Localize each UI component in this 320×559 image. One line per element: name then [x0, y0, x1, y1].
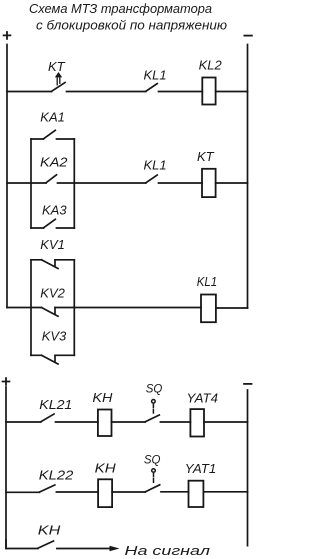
- wire rung6 left: [6, 540, 38, 549]
- arrowhead: [110, 546, 120, 552]
- wire rung2 left: [7, 182, 46, 184]
- svg-text:KL1: KL1: [144, 158, 167, 173]
- wire: [160, 421, 190, 423]
- coil KL1: [201, 295, 216, 323]
- minus terminal ladder2: [244, 383, 251, 385]
- left rail ladder2: [5, 387, 7, 549]
- contact KL1 rung1: [146, 84, 157, 92]
- coil KL2: [202, 78, 215, 105]
- KA3 branch wire: [31, 227, 74, 229]
- KV3 branch wire: [31, 354, 74, 356]
- svg-text:KL22: KL22: [39, 468, 74, 483]
- wire: [204, 421, 248, 423]
- coil YAT4: [190, 409, 204, 436]
- coil YAT1: [189, 481, 204, 507]
- wire: [216, 91, 248, 93]
- minus terminal ladder1: [244, 35, 252, 37]
- contact KH rung6: [38, 541, 54, 548]
- coil KT: [202, 169, 216, 197]
- svg-text:На сигнал: На сигнал: [125, 544, 211, 558]
- contact KV2: [42, 308, 59, 317]
- contact KV1: [42, 260, 59, 269]
- contact SQ rung4: [145, 415, 159, 422]
- wire rung5 left: [6, 491, 39, 493]
- svg-text:с блокировкой по напряжению: с блокировкой по напряжению: [36, 19, 228, 33]
- svg-text:KL1: KL1: [197, 274, 218, 289]
- SQ linkage rung5: [152, 469, 156, 483]
- left rail ladder1: [6, 45, 8, 308]
- wire rung3 left: [7, 307, 42, 309]
- KV1 branch wire: [31, 259, 74, 261]
- wire: [159, 91, 203, 93]
- wire: [161, 491, 189, 493]
- wire rung2 mid: [58, 182, 146, 184]
- svg-text:SQ: SQ: [146, 384, 163, 396]
- svg-text:KH: KH: [95, 461, 117, 476]
- wire: [67, 91, 146, 93]
- KV right bus: [73, 260, 75, 356]
- wire: [216, 307, 248, 309]
- wire: [159, 182, 203, 184]
- KA1 branch wire: [31, 138, 74, 140]
- svg-text:KA3: KA3: [42, 202, 67, 217]
- contact KV3: [42, 355, 59, 364]
- svg-text:KH: KH: [92, 390, 113, 405]
- contact KA2: [46, 175, 57, 183]
- svg-text:KA1: KA1: [40, 109, 65, 124]
- contact KA3: [44, 219, 56, 228]
- SQ linkage rung4: [152, 400, 156, 414]
- wire: [112, 421, 146, 423]
- contact SQ rung5: [145, 485, 160, 492]
- svg-text:KL1: KL1: [144, 68, 167, 83]
- contact KL22: [39, 485, 55, 492]
- KA right bus: [73, 139, 75, 228]
- svg-text:KT: KT: [48, 59, 66, 74]
- contact KL21: [41, 414, 54, 422]
- svg-text:KV1: KV1: [40, 237, 65, 252]
- wire to signal: [57, 548, 110, 550]
- KV left bus: [30, 260, 32, 356]
- svg-text:YAT4: YAT4: [187, 391, 219, 406]
- contact KT: [52, 83, 66, 92]
- contact KL1 rung2: [146, 175, 157, 183]
- right rail ladder2: [247, 390, 249, 546]
- plus terminal ladder2: [3, 378, 10, 385]
- svg-text:KA2: KA2: [40, 154, 68, 169]
- svg-text:KV2: KV2: [40, 286, 65, 301]
- wire: [216, 182, 248, 184]
- svg-text:KH: KH: [38, 523, 61, 538]
- right rail ladder1: [247, 45, 249, 309]
- wire: [56, 491, 98, 493]
- wire rung3 mid: [55, 307, 201, 309]
- svg-text:KL21: KL21: [39, 397, 72, 412]
- svg-text:KL2: KL2: [199, 58, 223, 73]
- coil KH rung4: [98, 410, 112, 437]
- svg-text:Схема МТЗ трансформатора: Схема МТЗ трансформатора: [29, 2, 212, 16]
- plus terminal ladder1: [4, 32, 11, 39]
- wire: [112, 491, 145, 493]
- svg-text:SQ: SQ: [144, 455, 161, 467]
- svg-text:KV3: KV3: [42, 328, 67, 343]
- KT time arrow: [55, 72, 62, 85]
- KA left bus: [30, 139, 32, 228]
- coil KH rung5: [98, 479, 112, 507]
- svg-text:KT: KT: [197, 149, 215, 164]
- svg-text:YAT1: YAT1: [185, 461, 217, 476]
- wire rung4 left: [6, 421, 41, 423]
- contact KA1: [44, 130, 56, 139]
- wire rung1 left: [7, 91, 52, 93]
- wire: [56, 421, 98, 423]
- wire: [203, 491, 247, 493]
